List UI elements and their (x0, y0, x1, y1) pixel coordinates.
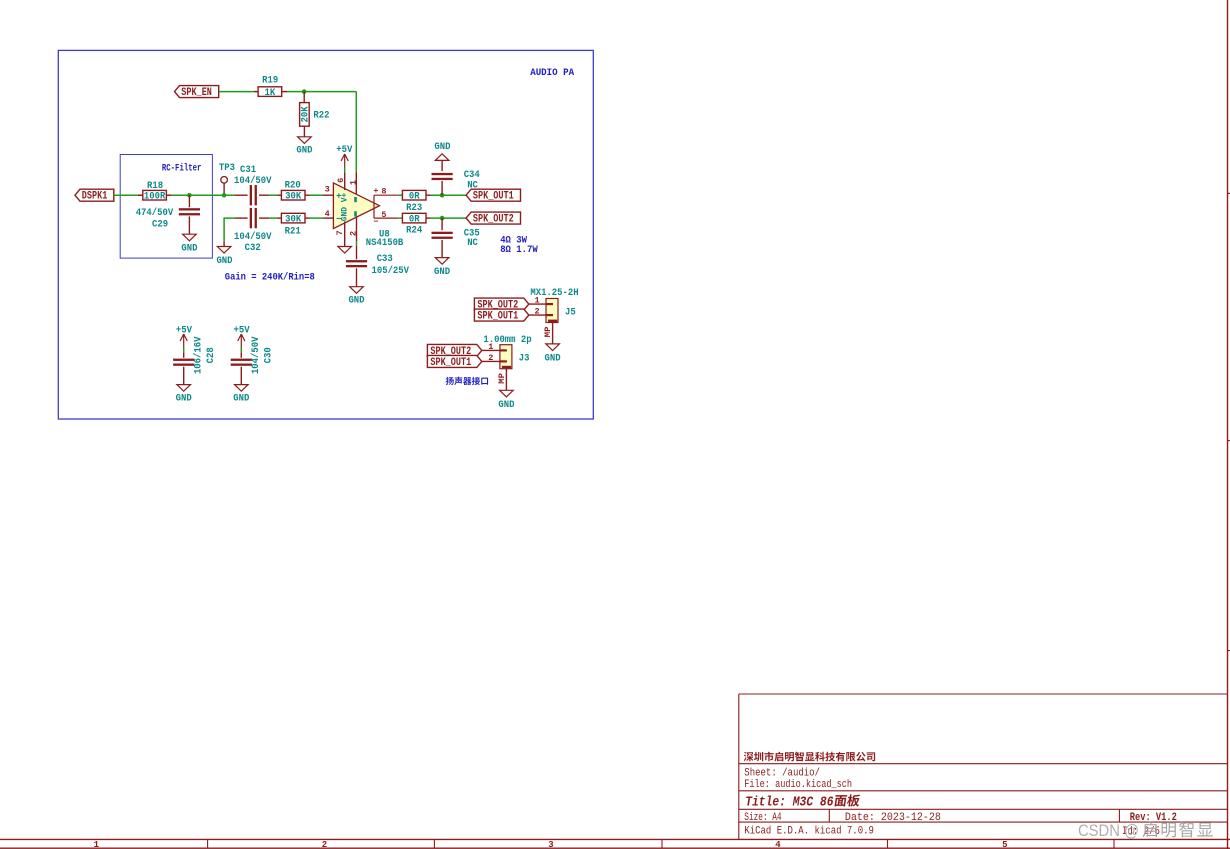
svg-text:104/50V: 104/50V (234, 231, 272, 243)
label DSPK1 (75, 189, 114, 201)
node junction TP3 (222, 193, 227, 198)
svg-text:R24: R24 (406, 225, 422, 237)
label SPK_OUT2 (466, 212, 520, 224)
svg-text:DSPK1: DSPK1 (82, 191, 108, 203)
svg-text:0R: 0R (409, 213, 420, 225)
ground pin7 (338, 247, 352, 254)
ground below C35 (435, 258, 449, 265)
svg-text:1: 1 (94, 840, 100, 849)
svg-text:J3: J3 (519, 352, 530, 364)
svg-text:30K: 30K (285, 190, 302, 202)
J3 MP pin (505, 369, 507, 391)
wire down to pin 1 (355, 92, 357, 173)
svg-text:1K: 1K (265, 87, 276, 99)
svg-text:R22: R22 (313, 109, 329, 121)
svg-text:SPK_OUT2: SPK_OUT2 (473, 214, 514, 226)
wire DSPK1 to R18 (114, 194, 138, 196)
svg-text:+5V: +5V (336, 144, 353, 156)
capacitor C31 (224, 194, 235, 196)
capacitor C30 (240, 348, 242, 353)
ground below J5 (546, 344, 560, 351)
label SPK_OUT1 (466, 189, 520, 201)
node junction C29 (187, 193, 192, 198)
pin 6 +5V (344, 172, 346, 190)
label SPK_OUT1 to J3 pin2 (427, 355, 481, 367)
svg-text:2: 2 (349, 231, 359, 236)
frame row ticks (1228, 192, 1230, 194)
J5 body (546, 299, 558, 323)
svg-text:5: 5 (1002, 840, 1007, 849)
capacitor C29 (188, 195, 190, 207)
resistor R19 (258, 87, 282, 97)
svg-text:NC: NC (467, 237, 478, 249)
svg-text:NC: NC (467, 179, 478, 191)
pin 7 to ground (344, 222, 346, 247)
svg-text:SPK_OUT1: SPK_OUT1 (473, 191, 514, 203)
svg-text:8Ω 1.7W: 8Ω 1.7W (500, 244, 538, 256)
svg-text:Size: A4: Size: A4 (744, 812, 781, 824)
resistor R18 (143, 190, 167, 200)
svg-text:R18: R18 (147, 180, 163, 192)
svg-text:MP: MP (543, 327, 553, 338)
svg-text:8: 8 (381, 187, 386, 197)
svg-text:20K: 20K (300, 106, 312, 123)
wire R18 to TP3 node (166, 194, 171, 196)
svg-text:GND: GND (181, 243, 197, 255)
node junction C34 (440, 193, 445, 198)
svg-text:RC-Filter: RC-Filter (162, 162, 202, 174)
ground below C28 (177, 385, 191, 392)
svg-text:2: 2 (322, 840, 327, 849)
resistor R23 (402, 190, 426, 200)
ground below R22 (298, 137, 312, 144)
svg-text:104/50V: 104/50V (250, 336, 262, 374)
frame column ticks (207, 839, 209, 848)
ground below C32 wire (223, 241, 225, 246)
wire pin8 to R23 (398, 194, 402, 196)
testpoint TP3 (221, 177, 228, 184)
wire R21 to pin 4 (305, 217, 310, 219)
graphic box RC-Filter (120, 155, 212, 259)
svg-text:GND: GND (216, 255, 232, 267)
svg-text:Title: M3C 86: Title: M3C 86 (745, 794, 834, 810)
wire C31 to R20 (269, 194, 277, 196)
resistor R24 (402, 213, 426, 223)
svg-text:106/16V: 106/16V (193, 336, 205, 374)
svg-text:GND: GND (348, 295, 364, 307)
svg-text:AUDIO PA: AUDIO PA (530, 67, 575, 79)
output pins 8 and 5 (374, 195, 398, 218)
svg-text:R21: R21 (285, 226, 301, 238)
node junction R19/R22 (302, 89, 307, 94)
svg-text:R19: R19 (262, 75, 278, 87)
power symbol +5V (pin 6) (341, 154, 348, 168)
wire SPK_EN to R19 (219, 91, 254, 93)
svg-text:5: 5 (381, 210, 386, 220)
svg-text:C32: C32 (245, 242, 261, 254)
svg-text:C29: C29 (152, 219, 168, 231)
svg-text:File: audio.kicad_sch: File: audio.kicad_sch (744, 779, 852, 791)
label SPK_OUT2 to J3 pin1 (427, 344, 481, 356)
svg-text:0R: 0R (409, 190, 420, 202)
svg-text:105/25V: 105/25V (372, 265, 410, 277)
sheet graphic box AUDIO PA (58, 50, 593, 419)
wire R23 to SPK_OUT1 (426, 194, 431, 196)
svg-text:474/50V: 474/50V (136, 207, 174, 219)
node junction C35 (440, 216, 445, 221)
capacitor C34 (441, 160, 443, 171)
wire R20 to pin 3 (305, 194, 310, 196)
svg-text:GND V+: GND V+ (341, 193, 350, 222)
svg-text:GND: GND (545, 353, 561, 365)
svg-text:2: 2 (488, 353, 493, 363)
svg-text:Sheet: /audio/: Sheet: /audio/ (744, 768, 820, 780)
svg-text:+: + (373, 186, 378, 196)
svg-text:SPK_EN: SPK_EN (181, 87, 212, 99)
svg-text:Gain = 240K/Rin=8: Gain = 240K/Rin=8 (225, 272, 315, 284)
svg-text:GND: GND (233, 393, 249, 405)
svg-text:C33: C33 (377, 253, 393, 265)
note text speaker connector (CJK) (446, 377, 454, 385)
svg-text:4: 4 (325, 209, 330, 219)
sheet frame right border (1227, 0, 1229, 849)
svg-text:104/50V: 104/50V (234, 175, 272, 187)
svg-text:GND: GND (498, 399, 514, 411)
svg-text:3: 3 (548, 840, 553, 849)
svg-text:−: − (373, 217, 378, 227)
sheet frame bottom borders (0, 838, 1230, 840)
svg-text:J5: J5 (565, 306, 576, 318)
svg-text:4: 4 (775, 840, 781, 849)
pin 1 EN (355, 172, 357, 194)
wire pin5 to R24 (398, 217, 402, 219)
svg-text:1: 1 (488, 342, 493, 352)
svg-text:R23: R23 (406, 202, 422, 214)
svg-text:GND: GND (296, 144, 312, 156)
wire R22 to ground (303, 126, 305, 137)
ground below C33 (350, 287, 364, 294)
resistor R22 (303, 92, 305, 103)
capacitor C32 (224, 218, 235, 241)
resistor R20 (281, 190, 305, 200)
svg-text:TP3: TP3 (219, 162, 235, 174)
pin 2 (356, 217, 358, 242)
capacitor C28 (183, 348, 185, 353)
ground below J3 (500, 390, 514, 397)
svg-text:R20: R20 (285, 180, 301, 192)
capacitor C33 (356, 246, 358, 260)
svg-text:1: 1 (534, 296, 539, 306)
J3 body (500, 345, 512, 369)
ground below C30 (235, 385, 249, 392)
svg-text:6: 6 (336, 178, 346, 183)
op-amp U8 NS4150B (333, 183, 379, 229)
ground below C29 (183, 234, 197, 241)
svg-text:CSDN @: CSDN @ (1078, 821, 1139, 840)
J5 MP pin (552, 323, 554, 344)
svg-text:7: 7 (335, 230, 345, 235)
svg-text:2: 2 (534, 307, 539, 317)
wire R24 to SPK_OUT2 (426, 217, 431, 219)
svg-text:30K: 30K (285, 213, 302, 225)
label SPK_OUT2 to J5 pin1 (474, 298, 528, 310)
capacitor C35 (441, 218, 443, 230)
label SPK_EN (175, 86, 219, 98)
svg-text:C28: C28 (205, 347, 217, 363)
svg-text:Date: 2023-12-28: Date: 2023-12-28 (845, 812, 941, 824)
svg-text:NS4150B: NS4150B (366, 237, 404, 249)
resistor R21 (281, 213, 305, 223)
svg-text:3: 3 (325, 184, 330, 194)
svg-text:KiCad E.D.A. kicad 7.0.9: KiCad E.D.A. kicad 7.0.9 (744, 825, 874, 837)
label SPK_OUT1 to J5 pin2 (474, 309, 528, 321)
title block outline (739, 694, 1228, 839)
svg-text:1: 1 (348, 180, 358, 185)
svg-text:GND: GND (434, 141, 450, 153)
company name (CJK) (744, 752, 754, 761)
svg-text:GND: GND (176, 393, 192, 405)
svg-text:GND: GND (434, 266, 450, 278)
svg-text:MP: MP (497, 373, 507, 384)
wire R19 to opamp pin1 (282, 91, 287, 93)
svg-text:C30: C30 (263, 347, 275, 363)
svg-text:SPK_OUT1: SPK_OUT1 (477, 311, 518, 323)
svg-text:SPK_OUT1: SPK_OUT1 (430, 357, 471, 369)
wire C32 to R21 (269, 217, 277, 219)
